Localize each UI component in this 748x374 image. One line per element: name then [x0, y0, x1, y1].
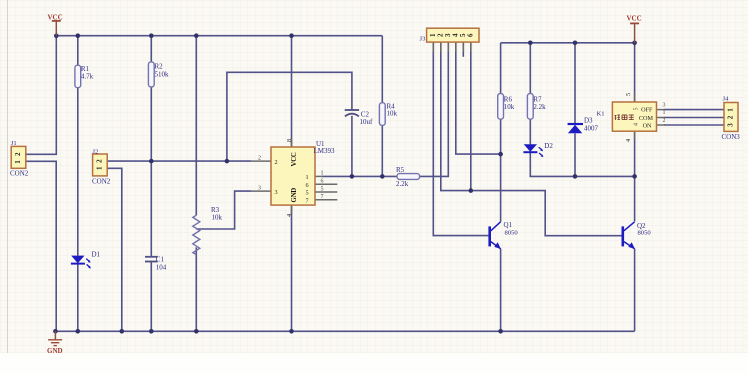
node R4 bottom on OUT row	[380, 174, 385, 179]
wire U1 pin1 out row to R5	[322, 175, 397, 177]
wire K1 coil bottom	[634, 131, 636, 176]
wire R7 to D2	[529, 119, 531, 144]
wire J3 pin1 to Q1 base	[433, 42, 488, 236]
connector J4	[722, 96, 741, 142]
svg-text:104: 104	[156, 264, 167, 272]
svg-text:3: 3	[275, 189, 278, 196]
wire R6 to Q1 collector	[500, 119, 502, 222]
pin K1 top stub	[634, 94, 636, 102]
svg-text:D2: D2	[544, 142, 553, 150]
capacitor C1	[145, 256, 167, 272]
connector J3	[420, 28, 480, 42]
svg-text:GND: GND	[291, 188, 298, 203]
svg-text:5: 5	[321, 186, 324, 192]
pin J3 stubs	[432, 42, 434, 52]
node R7 top on right bus	[528, 41, 533, 46]
power VCC left	[48, 14, 63, 36]
wire U1 pin3 to R3 tap	[196, 191, 251, 229]
svg-text:2.2k: 2.2k	[533, 103, 546, 111]
node D1 bottom on GND bus	[76, 329, 81, 334]
wire J3 pin4 to R6 bottom	[456, 42, 501, 154]
pin U1.3 stub	[251, 190, 271, 192]
wire R3 top	[195, 36, 197, 216]
connector J1	[10, 140, 29, 177]
svg-text:J3: J3	[420, 36, 427, 43]
svg-text:2.2k: 2.2k	[396, 180, 409, 188]
svg-text:CON3: CON3	[722, 133, 741, 141]
connector J2	[92, 148, 111, 185]
wire R2 top	[150, 36, 152, 62]
svg-text:R2: R2	[155, 63, 164, 71]
wire R7 top	[529, 43, 531, 94]
node R6 bottom	[498, 152, 503, 157]
svg-text:J2: J2	[92, 148, 98, 155]
resistor R4	[379, 103, 397, 126]
pin U1.6 stub	[315, 183, 337, 185]
svg-text:5: 5	[625, 93, 632, 96]
relay K1	[597, 93, 666, 142]
svg-text:1: 1	[321, 171, 324, 177]
node R2 top	[149, 33, 154, 38]
wire R1 top	[77, 36, 79, 65]
pin U1.8 stub	[291, 139, 293, 147]
node U1 pin4 on GND bus	[289, 329, 294, 334]
wire K1 coil top to VCC bus	[634, 43, 636, 102]
node K1 coil bottom / Q2 collector	[632, 174, 637, 179]
svg-text:10k: 10k	[504, 103, 515, 111]
svg-text:10uf: 10uf	[360, 118, 374, 126]
bottom white margin	[0, 353, 748, 374]
svg-text:2: 2	[275, 159, 278, 166]
svg-text:VCC: VCC	[48, 14, 63, 22]
resistor R2	[148, 62, 169, 87]
op-amp U1 LM393	[258, 139, 335, 217]
svg-text:1: 1	[14, 160, 22, 164]
pin U1.7 stub	[315, 199, 337, 201]
wire R3 bottom to GND bus	[195, 247, 197, 331]
wire VCC right bus	[501, 42, 635, 44]
svg-text:K1: K1	[597, 111, 605, 118]
svg-text:4.7k: 4.7k	[81, 73, 94, 81]
svg-text:Q1: Q1	[504, 221, 513, 229]
svg-text:7: 7	[306, 197, 309, 204]
wire R4 bottom	[381, 125, 383, 176]
wire R2 to C1	[150, 87, 152, 257]
wire U1 pin8 to VCC bus	[291, 36, 293, 147]
svg-text:1: 1	[306, 174, 309, 181]
wire J3 pin5 stub	[462, 42, 464, 57]
svg-text:6: 6	[321, 179, 324, 185]
pin U1.2 stub	[251, 160, 271, 162]
wire J3 pin6 down	[470, 42, 472, 191]
svg-text:8050: 8050	[638, 230, 652, 237]
svg-text:10k: 10k	[212, 214, 223, 222]
wire D3 bottom	[574, 133, 576, 176]
wire VCC top bus	[56, 35, 382, 37]
resistor R6	[498, 94, 515, 120]
transistor Q1	[488, 221, 518, 249]
wire J1 pin1 to GND bus	[26, 161, 56, 331]
svg-text:D1: D1	[92, 251, 101, 259]
svg-text:8050: 8050	[505, 230, 519, 237]
svg-text:10k: 10k	[387, 110, 398, 118]
node R2 bottom on IN row	[149, 159, 154, 164]
transistor Q2	[622, 222, 652, 249]
svg-text:GND: GND	[47, 347, 63, 355]
svg-text:LM393: LM393	[314, 147, 336, 155]
node VCC stem junction	[54, 33, 59, 38]
svg-text:CON2: CON2	[10, 169, 29, 177]
wire R4 top	[381, 36, 383, 103]
node J3 pin6 on row	[469, 188, 474, 193]
node U1 pin8 top	[289, 33, 294, 38]
node D3 bottom on relay row	[573, 174, 578, 179]
LED D1	[71, 251, 101, 269]
wire C2 branch up and over	[227, 72, 352, 161]
pin K1 right stubs	[657, 109, 666, 111]
wire Q2 collector	[634, 176, 636, 221]
svg-text:J4: J4	[723, 96, 730, 103]
svg-text:3: 3	[258, 185, 261, 191]
svg-text:5: 5	[634, 108, 640, 111]
wire D1 to GND bus	[77, 264, 79, 331]
pin K1 bottom stub	[634, 131, 636, 139]
resistor R3 (zigzag with tap)	[193, 206, 223, 255]
svg-text:6: 6	[306, 182, 309, 189]
svg-text:VCC: VCC	[627, 15, 642, 23]
wire U1 pin4 to GND bus	[291, 205, 293, 331]
wire net IN: J2 pin2 to U1 pin2 row	[107, 160, 251, 162]
node C2 branch on IN row	[225, 159, 230, 164]
svg-text:1: 1	[663, 110, 666, 116]
wire R6 top	[500, 43, 502, 94]
svg-text:1: 1	[727, 108, 735, 112]
svg-text:510k: 510k	[155, 71, 170, 79]
power VCC right	[627, 15, 642, 43]
svg-text:8: 8	[286, 139, 293, 142]
svg-text:4007: 4007	[584, 125, 599, 133]
wire R1 to D1	[77, 88, 79, 256]
svg-text:3: 3	[663, 102, 666, 108]
resistor R1	[75, 65, 94, 88]
svg-text:2: 2	[258, 155, 261, 161]
svg-text:2: 2	[663, 118, 666, 124]
svg-text:OFF: OFF	[641, 107, 653, 114]
svg-text:D3: D3	[584, 117, 593, 125]
svg-text:J1: J1	[11, 140, 17, 147]
diode D3 (pointing up)	[568, 117, 599, 134]
svg-text:7: 7	[321, 194, 324, 200]
node C1 bottom on GND bus	[149, 329, 154, 334]
node R3 bottom on GND bus	[194, 329, 199, 334]
wire D2 to relay row	[530, 153, 634, 177]
svg-text:VCC: VCC	[291, 152, 298, 166]
wire C1 to GND bus	[150, 262, 152, 332]
pin U1.4 stub	[291, 205, 293, 213]
svg-text:C1: C1	[156, 256, 165, 264]
node C2 bottom on OUT row	[350, 174, 355, 179]
node GND stem	[53, 329, 58, 334]
ground	[47, 331, 63, 355]
wire J1 pin2 to VCC bus	[26, 36, 57, 155]
svg-text:5: 5	[306, 190, 309, 197]
sheet border line	[7, 0, 9, 353]
svg-text:3: 3	[727, 123, 735, 127]
wire R5 to J3 pin3	[420, 42, 449, 176]
wire J2 pin1 to GND bus	[107, 168, 122, 331]
wire K1 contact rows to J4	[664, 109, 724, 111]
svg-text:4: 4	[625, 139, 632, 142]
node R1 top	[76, 33, 81, 38]
svg-text:ON: ON	[643, 123, 652, 130]
svg-text:R5: R5	[396, 166, 405, 174]
svg-text:1: 1	[96, 166, 104, 170]
node R3 top	[194, 33, 199, 38]
wire Q2 emitter to GND bus	[634, 249, 636, 331]
svg-text:COM: COM	[639, 115, 654, 122]
node D3 top on right bus	[573, 41, 578, 46]
node VCC right stem	[632, 41, 637, 46]
resistor R5 (horizontal)	[396, 166, 420, 188]
resistor R7	[527, 94, 546, 120]
svg-text:6: 6	[466, 33, 474, 37]
svg-text:2: 2	[96, 159, 104, 163]
wire D3 top	[574, 43, 576, 124]
wire J3 pin2 to Q2 base	[441, 42, 622, 236]
capacitor C2 (polarized)	[345, 110, 373, 126]
wire Q1 emitter to GND bus	[500, 249, 502, 331]
svg-text:CON2: CON2	[92, 178, 111, 186]
svg-text:4: 4	[634, 123, 640, 126]
LED D2	[523, 142, 553, 157]
pin U1.1 stub	[315, 175, 323, 177]
svg-text:4: 4	[286, 214, 293, 217]
继电器 glyphs (hand drawn)	[615, 115, 634, 120]
node Q1 emitter on GND bus	[498, 329, 503, 334]
pin U1.5 stub	[315, 191, 337, 193]
wire C2 bottom to out row	[351, 116, 353, 177]
svg-text:2: 2	[14, 152, 22, 156]
wire GND bottom bus	[55, 330, 634, 332]
svg-text:2: 2	[727, 115, 735, 119]
node J2 pin1 on GND bus	[120, 329, 125, 334]
